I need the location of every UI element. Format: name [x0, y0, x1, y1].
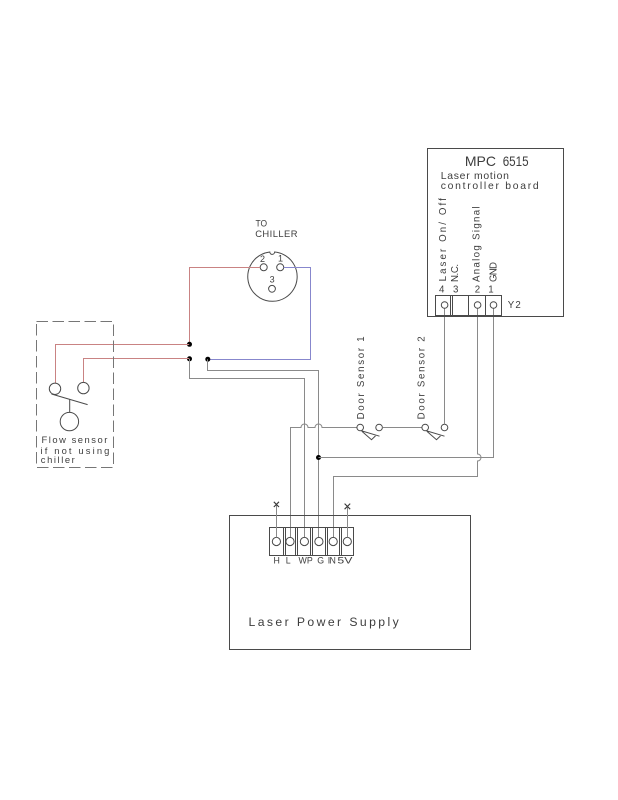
svg-text:CHILLER: CHILLER — [255, 228, 298, 239]
svg-text:6515: 6515 — [503, 153, 529, 169]
svg-text:MPC: MPC — [465, 153, 496, 169]
svg-text:Laser Power Supply: Laser Power Supply — [249, 615, 400, 629]
wire stub 5V terminal with x (no connect) — [347, 507, 349, 538]
svg-text:5V: 5V — [337, 556, 352, 566]
wire red: flow sensor T2 up and right to node B — [84, 359, 190, 383]
wire blue: chiller pin 1 right and down to node C — [208, 268, 311, 360]
svg-text:controller board: controller board — [441, 181, 539, 192]
svg-text:Door Sensor 1: Door Sensor 1 — [356, 336, 367, 419]
svg-text:1: 1 — [488, 285, 493, 296]
laser power supply box — [230, 516, 471, 650]
terminal L circle — [286, 537, 294, 545]
label TO CHILLER — [255, 218, 298, 239]
terminal H circle — [272, 537, 280, 545]
svg-text:N.C.: N.C. — [450, 264, 461, 282]
flow sensor caption — [41, 434, 110, 465]
node C junction dot (blue to gray G wire) — [205, 357, 210, 362]
terminal G circle — [315, 537, 323, 545]
MPC terminal 1 circle — [490, 302, 497, 309]
wire gray: node C down/right/down to G terminal — [208, 359, 319, 537]
chiller pin 1 — [277, 264, 284, 271]
svg-text:IN: IN — [328, 556, 336, 566]
wire red: chiller pin 2 left and down to junction A — [190, 268, 261, 345]
svg-text:3: 3 — [270, 275, 275, 285]
door sensor 2 right contact — [441, 424, 448, 431]
no-connect x mark at 5V — [345, 504, 351, 510]
svg-text:GND: GND — [489, 262, 500, 282]
door sensor 1 lever — [362, 431, 380, 440]
flow sensor lever — [52, 394, 88, 405]
svg-text:Door Sensor 2: Door Sensor 2 — [416, 336, 427, 419]
svg-text:Analog Signal: Analog Signal — [472, 206, 483, 282]
svg-text:1: 1 — [278, 254, 283, 264]
svg-text:3: 3 — [453, 285, 458, 296]
svg-text:Y2: Y2 — [508, 300, 521, 311]
node B junction dot (flow sensor T2 / WP wire) — [187, 356, 192, 361]
wire gray: L terminal up then right to door sensor 1 (hops over WP and G wires) — [291, 424, 357, 537]
node D junction dot on G wire (to MPC GND) — [316, 455, 321, 460]
wire gray: node B down/right/down to WP terminal — [190, 359, 305, 538]
terminal 5V circle — [343, 537, 351, 545]
chiller pin 2 — [260, 264, 267, 271]
terminal WP circle — [300, 537, 308, 545]
door sensor 1 right contact — [376, 424, 383, 431]
wire red: flow sensor T1 up and right to node A — [56, 345, 190, 384]
terminal IN circle — [329, 537, 337, 545]
no-connect x mark at H — [274, 502, 279, 507]
MPC terminal 4 circle — [441, 302, 448, 309]
wire stub H terminal with x (no connect) — [276, 505, 278, 537]
door sensor 2 lever — [427, 431, 445, 440]
svg-text:H: H — [274, 556, 280, 566]
svg-text:4: 4 — [439, 285, 445, 296]
svg-text:WP: WP — [299, 556, 313, 566]
svg-text:Laser On/ Off: Laser On/ Off — [438, 198, 449, 281]
svg-text:2: 2 — [260, 254, 265, 264]
wire gray: door sensor 1 to door sensor 2 — [382, 427, 422, 429]
wire gray: MPC pin 1 GND down then left to node D — [319, 308, 494, 457]
flow sensor dashed enclosure — [37, 322, 114, 468]
wire gray: MPC pin 2 Analog Signal down (hop over GND wire) then left to IN terminal — [334, 308, 482, 537]
flow sensor terminal T1 — [49, 383, 60, 394]
svg-text:Flow sensor: Flow sensor — [42, 434, 108, 445]
door sensor 2 left contact — [422, 424, 429, 431]
svg-text:L: L — [286, 556, 291, 566]
power supply terminal block — [270, 528, 354, 556]
MPC terminal block Y2 — [436, 296, 502, 316]
svg-text:TO: TO — [256, 218, 268, 229]
door sensor 1 left contact — [357, 424, 364, 431]
svg-text:G: G — [317, 556, 324, 566]
flow sensor float stem — [69, 400, 71, 413]
flow sensor float — [60, 412, 78, 430]
svg-text:2: 2 — [475, 285, 480, 296]
wire gray: door sensor 2 up to MPC pin 4 — [444, 308, 446, 424]
flow sensor terminal T2 — [78, 382, 89, 393]
chiller connector J1 (circle with keyway notch) — [248, 252, 297, 301]
terminal labels H L WP G IN 5V — [274, 556, 353, 566]
MPC terminal 2 circle — [474, 302, 481, 309]
node A junction dot (chiller pin2 / flow sensor T1) — [187, 342, 192, 347]
chiller pin 3 — [269, 285, 276, 292]
MPC 6515 board box — [428, 149, 564, 317]
